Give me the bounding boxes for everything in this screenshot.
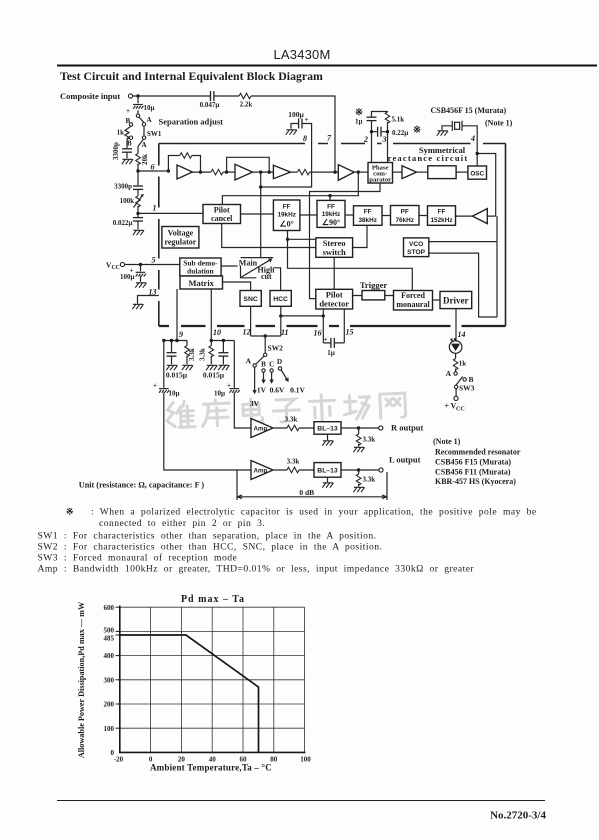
svg-text:1: 1 [153, 204, 157, 213]
svg-text:BL–13: BL–13 [317, 426, 338, 433]
svg-text:500: 500 [104, 627, 115, 635]
svg-text:connected to either pin 2 or p: connected to either pin 2 or pin 3. [99, 518, 265, 529]
svg-text:3.3k: 3.3k [188, 348, 196, 361]
svg-text:D: D [277, 358, 282, 366]
svg-text:3V: 3V [250, 399, 260, 408]
svg-text:100µ: 100µ [288, 110, 304, 119]
svg-text:0.022µ: 0.022µ [113, 219, 133, 227]
svg-text:Test Circuit and Internal Equi: Test Circuit and Internal Equivalent Blo… [60, 69, 323, 83]
svg-text:Amp: Amp [254, 426, 268, 433]
svg-text:3.3k: 3.3k [363, 436, 376, 444]
svg-text:SW2: SW2 [268, 344, 284, 353]
svg-text:L output: L output [389, 455, 421, 465]
svg-text:※: ※ [413, 125, 421, 136]
svg-text:Ambient Temperature,Ta – °C: Ambient Temperature,Ta – °C [150, 763, 272, 773]
svg-text:100µ: 100µ [120, 273, 135, 281]
svg-text:3.3k: 3.3k [198, 348, 206, 361]
svg-text:-20: -20 [114, 756, 124, 764]
svg-text:Main: Main [239, 258, 258, 267]
svg-text:300: 300 [104, 676, 115, 684]
svg-text:+: + [126, 107, 130, 115]
svg-text:100: 100 [104, 725, 115, 733]
svg-text:dulation: dulation [187, 267, 215, 276]
svg-text:B: B [126, 117, 131, 125]
svg-text:∠0°: ∠0° [280, 220, 294, 229]
svg-text:: When a polarized electrolyti: : When a polarized electrolytic capacito… [91, 507, 537, 518]
svg-text:12: 12 [243, 328, 251, 337]
svg-text:SNC: SNC [243, 296, 257, 303]
svg-text:38kHz: 38kHz [358, 217, 376, 224]
svg-text:C: C [269, 361, 274, 369]
svg-text:+: + [324, 336, 328, 344]
svg-text:※: ※ [66, 507, 74, 517]
svg-text:Forced: Forced [401, 291, 425, 300]
svg-text:0.1V: 0.1V [290, 386, 305, 395]
svg-text:16: 16 [314, 329, 322, 338]
svg-text:20k: 20k [141, 154, 149, 165]
svg-text:monaural: monaural [396, 300, 430, 309]
svg-text:PF: PF [401, 209, 409, 216]
svg-text:1µ: 1µ [327, 349, 335, 357]
svg-text:400: 400 [104, 652, 115, 660]
svg-text:Separation adjust: Separation adjust [159, 117, 224, 127]
svg-text:14: 14 [458, 330, 466, 339]
svg-text:0.22µ: 0.22µ [392, 129, 408, 137]
svg-text:3.3k: 3.3k [287, 458, 300, 466]
svg-text:VCO: VCO [409, 241, 423, 248]
svg-text:0.015µ: 0.015µ [166, 371, 188, 380]
svg-text:100k: 100k [120, 197, 135, 205]
svg-text:FF: FF [283, 204, 291, 211]
svg-text:600: 600 [104, 604, 115, 612]
svg-text:5: 5 [152, 256, 156, 265]
svg-text:CSB456 F11 (Murata): CSB456 F11 (Murata) [435, 467, 511, 476]
svg-text:STOP: STOP [407, 249, 425, 256]
svg-text:LA3430M: LA3430M [273, 47, 330, 62]
svg-text:3300p: 3300p [112, 142, 120, 160]
svg-text:SW1: SW1 [147, 130, 162, 138]
svg-text:2: 2 [363, 135, 368, 144]
svg-text:+: + [445, 402, 450, 411]
svg-text:detector: detector [319, 299, 349, 309]
svg-text:A: A [147, 116, 152, 124]
svg-text:2.2k: 2.2k [240, 101, 253, 109]
svg-text:7: 7 [327, 134, 332, 143]
svg-text:FF: FF [438, 209, 446, 216]
svg-text:(Note 1): (Note 1) [485, 119, 513, 128]
svg-text:3300p: 3300p [114, 183, 132, 191]
svg-text:regulator: regulator [164, 238, 196, 247]
svg-text:Trigger: Trigger [360, 280, 387, 290]
svg-text:5.1k: 5.1k [392, 116, 405, 124]
svg-text:0.015µ: 0.015µ [203, 371, 225, 380]
svg-text:100: 100 [300, 756, 311, 764]
svg-text:Composite input: Composite input [60, 91, 120, 101]
svg-text:19kHz: 19kHz [277, 212, 295, 219]
svg-text:parator: parator [369, 177, 391, 184]
svg-text:9: 9 [179, 330, 183, 339]
svg-text:SW1 : For characteristics othe: SW1 : For characteristics other than sep… [38, 531, 377, 542]
svg-text:B: B [127, 140, 132, 148]
svg-text:A: A [446, 369, 452, 378]
svg-text:B: B [261, 361, 266, 369]
svg-text:1µ: 1µ [355, 118, 363, 126]
svg-text:SW3: SW3 [459, 384, 475, 393]
svg-text:8: 8 [303, 134, 307, 143]
svg-text:76kHz: 76kHz [395, 217, 413, 224]
svg-text:+: + [305, 116, 309, 124]
svg-text:R output: R output [391, 423, 424, 433]
svg-text:FF: FF [327, 204, 335, 211]
svg-text:10: 10 [213, 328, 221, 337]
svg-text:0.047µ: 0.047µ [200, 101, 220, 109]
svg-text:Unit (resistance: Ω, capacitan: Unit (resistance: Ω, capacitance: F ) [79, 481, 205, 490]
svg-text:15: 15 [346, 328, 354, 337]
svg-text:Pd max – Ta: Pd max – Ta [181, 594, 245, 605]
svg-text:CSB456 F15 (Murata): CSB456 F15 (Murata) [435, 457, 511, 466]
svg-text:Amp : Bandwidth 100kHz or grea: Amp : Bandwidth 100kHz or greater, THD=0… [38, 564, 475, 575]
svg-text:3: 3 [382, 135, 387, 144]
svg-text:+: + [153, 382, 157, 390]
svg-text:A: A [246, 357, 252, 366]
svg-text:3.3k: 3.3k [363, 476, 376, 484]
svg-text:A: A [142, 141, 147, 149]
svg-text:1k: 1k [117, 129, 125, 137]
svg-text:10µ: 10µ [214, 390, 225, 398]
svg-text:CSB456F 15 (Murata): CSB456F 15 (Murata) [431, 106, 507, 115]
svg-text:cancel: cancel [211, 214, 233, 223]
svg-text:485: 485 [104, 634, 115, 642]
svg-text:Amp: Amp [254, 468, 268, 475]
svg-text:SW2 : For characteristics othe: SW2 : For characteristics other than HCC… [38, 542, 383, 553]
svg-text:3.3k: 3.3k [285, 416, 298, 424]
svg-text:∠90°: ∠90° [322, 218, 340, 227]
svg-text:CC: CC [112, 265, 120, 271]
svg-text:reactance circuit: reactance circuit [388, 153, 469, 163]
svg-text:1V: 1V [257, 386, 267, 395]
svg-text:+: + [227, 382, 231, 390]
svg-text:SW3 : Forced monaural of recep: SW3 : Forced monaural of reception mode [38, 553, 238, 564]
svg-text:BL–13: BL–13 [317, 468, 338, 475]
svg-text:switch: switch [323, 247, 346, 257]
svg-text:OSC: OSC [470, 171, 484, 178]
svg-text:※: ※ [355, 107, 363, 118]
svg-text:Voltage: Voltage [168, 229, 194, 238]
svg-text:KBR-457 HS (Kyocera): KBR-457 HS (Kyocera) [435, 477, 516, 486]
svg-text:(Note 1): (Note 1) [433, 437, 461, 446]
svg-text:152kHz: 152kHz [430, 217, 452, 224]
svg-text:FF: FF [364, 209, 372, 216]
svg-text:6: 6 [151, 163, 155, 172]
svg-text:Driver: Driver [443, 296, 468, 306]
svg-text:No.2720-3/4: No.2720-3/4 [490, 810, 546, 822]
svg-text:200: 200 [104, 701, 115, 709]
svg-text:0.6V: 0.6V [270, 386, 285, 395]
svg-text:Allowable Power Dissipation,Pd: Allowable Power Dissipation,Pd max — mW [77, 601, 86, 758]
svg-text:HCC: HCC [273, 296, 288, 303]
svg-text:cut: cut [261, 272, 272, 281]
svg-text:Matrix: Matrix [188, 278, 214, 288]
svg-text:1k: 1k [459, 360, 467, 368]
svg-text:CC: CC [456, 406, 465, 412]
svg-text:11: 11 [281, 328, 289, 337]
svg-text:4: 4 [470, 134, 475, 143]
svg-text:10µ: 10µ [169, 390, 180, 398]
svg-text:0 dB: 0 dB [299, 488, 314, 497]
svg-text:10µ: 10µ [144, 104, 155, 112]
svg-text:Recommended resonator: Recommended resonator [435, 447, 521, 456]
